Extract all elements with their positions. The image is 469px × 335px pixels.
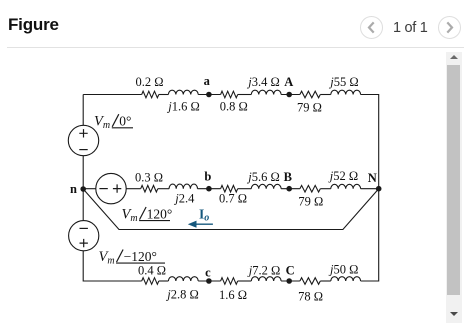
wire (238, 280, 252, 282)
wire to node N (361, 188, 379, 190)
inductor j55 ohm (328, 75, 360, 94)
wire to node A (281, 94, 300, 96)
resistor 0.7 ohm (219, 185, 247, 205)
svg-text:a: a (204, 74, 211, 88)
svg-text:c: c (205, 266, 211, 280)
node c (205, 266, 212, 284)
svg-text:120°: 120° (147, 206, 173, 221)
wire source2 to resistor 0.3 (126, 188, 141, 190)
wire (320, 188, 331, 190)
wire to node c (198, 280, 220, 282)
node a (204, 74, 212, 97)
svg-text:j55 Ω: j55 Ω (328, 75, 358, 89)
resistor 79 ohm middle (298, 185, 323, 208)
wire node n down (82, 189, 84, 221)
wire node n to source Vs2 (83, 188, 96, 190)
inductor j7.2 ohm (247, 264, 281, 281)
label Vm angle -120 (99, 249, 166, 267)
svg-text:1.6 Ω: 1.6 Ω (219, 288, 247, 302)
svg-text:n: n (70, 182, 77, 196)
wire (320, 94, 331, 96)
node C (286, 264, 295, 284)
inductor j52 ohm (328, 169, 361, 189)
source Vs3 Vm&#8736;&#8722;120&#176; (69, 221, 99, 251)
wire neutral return n to N (83, 189, 379, 230)
wire to node a (198, 94, 220, 96)
resistor 0.2 ohm (135, 75, 163, 98)
resistor 79 ohm top (297, 91, 322, 114)
wire source1 to node n (82, 156, 84, 189)
node B (284, 170, 292, 191)
wire left-top vertical (82, 95, 84, 126)
resistor 0.8 ohm (220, 91, 248, 113)
svg-text:0°: 0° (119, 114, 131, 129)
wire (159, 94, 169, 96)
node b (204, 170, 211, 192)
svg-text:A: A (284, 75, 293, 89)
wire (320, 280, 331, 282)
svg-text:Io: Io (199, 206, 209, 223)
node A (284, 75, 293, 97)
label Vm angle 120 (122, 206, 173, 224)
resistor 0.3 ohm (135, 171, 163, 192)
svg-text:b: b (204, 170, 211, 184)
wire source3 to bottom rail (83, 251, 142, 281)
wire bottom-right corner up (361, 189, 379, 281)
svg-text:0.4 Ω: 0.4 Ω (138, 264, 166, 278)
svg-text:j2.8 Ω: j2.8 Ω (165, 288, 199, 302)
svg-text:0.8 Ω: 0.8 Ω (220, 99, 248, 113)
svg-text:j3.4 Ω: j3.4 Ω (246, 75, 280, 89)
svg-text:0.2 Ω: 0.2 Ω (135, 75, 163, 89)
inductor j1.6 ohm (166, 90, 200, 113)
current arrow Io (188, 206, 213, 227)
source Vs1 Vm&#8736;0&#176; (68, 125, 98, 155)
svg-text:j5.6 Ω: j5.6 Ω (246, 170, 280, 184)
wire (238, 188, 252, 190)
svg-text:Vm: Vm (94, 114, 110, 132)
label Vm angle 0 (94, 114, 133, 132)
svg-text:78 Ω: 78 Ω (298, 290, 323, 304)
svg-text:0.7 Ω: 0.7 Ω (219, 192, 247, 206)
resistor 1.6 ohm (219, 278, 247, 303)
resistor 78 ohm (298, 278, 323, 304)
inductor j2.4 ohm (169, 184, 197, 206)
inductor j3.4 ohm (246, 75, 281, 94)
svg-text:j1.6 Ω: j1.6 Ω (166, 99, 200, 113)
svg-text:79 Ω: 79 Ω (297, 100, 322, 114)
svg-text:Vm: Vm (99, 249, 115, 267)
svg-text:N: N (368, 171, 377, 185)
wire to node b (198, 188, 221, 190)
inductor j5.6 ohm (246, 170, 281, 189)
inductor j50 ohm (328, 263, 361, 281)
svg-text:j50 Ω: j50 Ω (328, 263, 358, 277)
svg-text:B: B (284, 170, 292, 184)
node N (368, 171, 382, 191)
node n (70, 182, 86, 196)
resistor 0.4 ohm (138, 264, 166, 285)
svg-text:j2.4: j2.4 (173, 192, 195, 206)
wire (238, 94, 252, 96)
wire to node B (281, 188, 300, 190)
wire to node C (281, 280, 300, 282)
svg-text:79 Ω: 79 Ω (298, 195, 323, 209)
wire top-left horizontal (83, 94, 142, 96)
wire (159, 280, 169, 282)
inductor j2.8 ohm (165, 277, 199, 302)
source Vs2 Vm&#8736;120&#176; (96, 173, 126, 203)
svg-text:C: C (286, 264, 295, 278)
svg-text:0.3 Ω: 0.3 Ω (135, 171, 163, 185)
svg-text:j52 Ω: j52 Ω (328, 169, 358, 183)
svg-text:Vm: Vm (122, 206, 138, 224)
wire (158, 188, 169, 190)
svg-text:−120°: −120° (124, 249, 157, 264)
svg-text:j7.2 Ω: j7.2 Ω (247, 264, 281, 278)
wire top-right corner down (361, 95, 379, 189)
